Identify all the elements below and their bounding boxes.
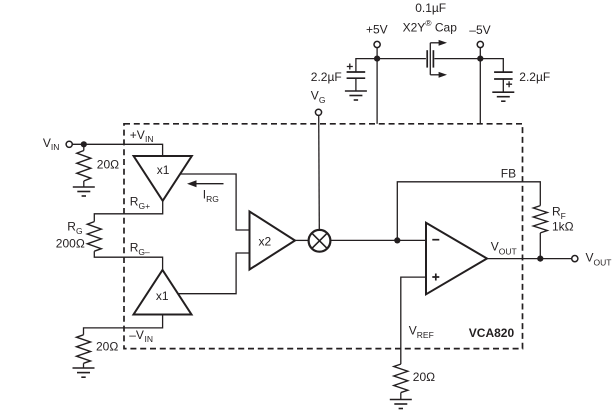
svg-text:20Ω: 20Ω xyxy=(97,157,119,171)
svg-text:+V: +V xyxy=(130,128,145,142)
svg-text:–5V: –5V xyxy=(469,23,490,37)
svg-text:IN: IN xyxy=(145,134,154,144)
wire VIN node to R1 xyxy=(83,144,85,150)
wire -5V stem xyxy=(479,48,481,59)
wire R2 to ground xyxy=(83,363,85,368)
op-amp U1a buffer x1 (top) xyxy=(134,156,192,201)
svg-text:2.2µF: 2.2µF xyxy=(519,70,550,84)
resistor R2 20 ohm (input bottom) xyxy=(77,335,91,364)
wire feedback FB xyxy=(397,182,540,241)
svg-text:V: V xyxy=(491,240,499,254)
wire multiplier to op-amp inverting input xyxy=(331,239,426,241)
junction +5V node xyxy=(374,56,380,62)
junction VIN node xyxy=(81,141,87,147)
junction inverting node xyxy=(394,237,400,243)
svg-text:2.2µF: 2.2µF xyxy=(311,70,342,84)
svg-text:–V: –V xyxy=(129,328,144,342)
junction output node xyxy=(537,256,543,262)
terminal VG xyxy=(315,109,321,115)
wire x1 top output to x2 xyxy=(180,174,249,230)
current arrow IRG xyxy=(187,180,224,187)
resistor R1 20 ohm (input top) xyxy=(77,151,91,182)
svg-text:V: V xyxy=(409,323,417,337)
svg-text:x1: x1 xyxy=(157,163,170,177)
wire VG to multiplier xyxy=(318,115,321,229)
wire R3 to ground xyxy=(400,393,402,400)
svg-text:1kΩ: 1kΩ xyxy=(552,220,574,234)
wire R1 to ground xyxy=(83,181,85,187)
svg-text:0.1µF: 0.1µF xyxy=(415,1,446,15)
wire -5V into box xyxy=(479,59,481,124)
svg-text:+5V: +5V xyxy=(366,23,388,37)
svg-text:x2: x2 xyxy=(258,235,271,249)
wire RG to x1 bottom xyxy=(94,251,162,270)
svg-text:FB: FB xyxy=(501,167,516,181)
terminal -5V xyxy=(477,41,483,47)
op-amp U3 output stage xyxy=(426,223,487,294)
op-amp U1b buffer x1 (bottom) xyxy=(134,270,192,315)
svg-text:200Ω: 200Ω xyxy=(56,237,85,251)
wire +5V into box xyxy=(376,59,378,124)
svg-text:OUT: OUT xyxy=(594,258,612,268)
capacitor C1 2.2uF (left) xyxy=(347,64,366,92)
wire VIN to buffer input xyxy=(72,144,162,155)
wire op-amp output to VOUT xyxy=(487,258,572,260)
junction -5V node xyxy=(477,56,483,62)
op-amp U2 gain stage x2 xyxy=(250,212,296,270)
ground (left cap) xyxy=(345,91,367,100)
ground (input top) xyxy=(73,187,95,196)
wire +5V stem xyxy=(376,48,378,59)
wire non-inverting input to VREF xyxy=(401,277,426,364)
terminal VIN xyxy=(66,141,72,147)
svg-text:IN: IN xyxy=(145,334,154,344)
wire x1 bottom input xyxy=(84,315,163,335)
svg-text:x1: x1 xyxy=(156,289,169,303)
ground (VREF) xyxy=(390,400,412,409)
svg-text:20Ω: 20Ω xyxy=(413,370,435,384)
multiplier (VG control) xyxy=(309,230,331,252)
svg-text:OUT: OUT xyxy=(499,247,517,257)
wire x1 top output to RG xyxy=(94,201,162,222)
wire x1 bottom output to x2 xyxy=(178,253,250,294)
ground (input bottom) xyxy=(73,368,95,377)
svg-text:V: V xyxy=(586,251,594,265)
capacitor C2 2.2uF (right) xyxy=(494,72,512,92)
terminal VOUT xyxy=(572,256,578,262)
wire RF to output node xyxy=(539,233,541,259)
wire x2 output to multiplier xyxy=(295,239,308,241)
resistor RF 1k ohm xyxy=(533,206,547,233)
svg-text:VCA820: VCA820 xyxy=(469,326,515,340)
ground (right cap) xyxy=(492,92,514,101)
svg-text:20Ω: 20Ω xyxy=(96,339,118,353)
resistor RG 200 ohm xyxy=(87,222,101,252)
wire supply bus left xyxy=(356,59,426,72)
dashed box VCA820 xyxy=(124,124,523,349)
terminal +5V xyxy=(374,41,380,47)
wire supply bus right xyxy=(434,59,503,72)
svg-text:REF: REF xyxy=(417,330,434,340)
capacitor 0.1uF X2Y xyxy=(427,40,447,78)
resistor R3 20 ohm (VREF) xyxy=(394,364,408,393)
